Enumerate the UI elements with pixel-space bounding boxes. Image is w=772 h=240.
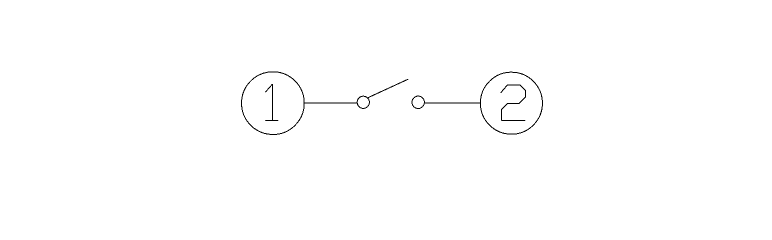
- wire W2: [424, 102, 480, 104]
- switch contact throw: [412, 96, 424, 108]
- switch contact pole: [357, 96, 369, 108]
- label 1: [265, 84, 278, 120]
- terminal T1 circle: [242, 72, 305, 135]
- switch lever: [369, 79, 408, 97]
- wire W1: [304, 102, 358, 104]
- label 2: [501, 85, 526, 120]
- terminal T2 circle: [480, 72, 542, 134]
